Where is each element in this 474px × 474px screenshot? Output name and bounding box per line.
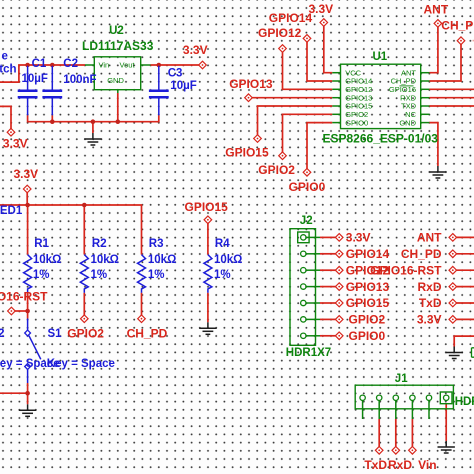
svg-text:Key = Space: Key = Space xyxy=(47,358,115,370)
svg-text:ANT: ANT xyxy=(417,231,442,245)
svg-text:C3: C3 xyxy=(168,68,183,80)
svg-text:C2: C2 xyxy=(63,58,78,70)
svg-text:S2: S2 xyxy=(0,326,5,340)
svg-text:GPIO2: GPIO2 xyxy=(349,313,386,327)
svg-text:Vout: Vout xyxy=(120,61,136,70)
svg-text:1%: 1% xyxy=(91,269,108,281)
svg-text:GPIO0: GPIO0 xyxy=(349,329,386,343)
svg-text:CH_PD: CH_PD xyxy=(441,19,474,33)
svg-text:ANT: ANT xyxy=(424,3,449,17)
svg-text:TxD: TxD xyxy=(419,296,442,310)
svg-text:Vin: Vin xyxy=(418,458,436,472)
svg-text:GPIO2: GPIO2 xyxy=(258,163,295,177)
svg-text:GPIO13: GPIO13 xyxy=(346,280,390,294)
svg-text:GPIO16-RST: GPIO16-RST xyxy=(0,290,48,304)
svg-text:3.3V: 3.3V xyxy=(309,2,334,16)
svg-text:GPIO15: GPIO15 xyxy=(346,296,390,310)
svg-text:LED1: LED1 xyxy=(0,205,23,217)
svg-text:HDR1X6: HDR1X6 xyxy=(455,396,474,408)
svg-text:C1: C1 xyxy=(32,58,47,70)
svg-text:RxD: RxD xyxy=(388,458,412,472)
svg-text:10kΩ: 10kΩ xyxy=(214,254,242,266)
svg-text:R2: R2 xyxy=(92,238,107,250)
svg-text:GPIO0: GPIO0 xyxy=(289,180,326,194)
svg-text:CH_PD: CH_PD xyxy=(127,326,168,340)
svg-text:1%: 1% xyxy=(214,269,231,281)
svg-text:GND: GND xyxy=(399,118,416,127)
svg-text:GPIO15: GPIO15 xyxy=(225,146,269,160)
svg-text:RxD: RxD xyxy=(417,280,441,294)
svg-text:R3: R3 xyxy=(149,238,164,250)
svg-text:U1: U1 xyxy=(373,51,388,63)
svg-text:HDR1X7: HDR1X7 xyxy=(286,347,331,359)
svg-text:switch: switch xyxy=(0,64,17,76)
svg-text:Vin: Vin xyxy=(99,61,110,70)
svg-text:S1: S1 xyxy=(48,328,63,340)
svg-text:10kΩ: 10kΩ xyxy=(148,254,176,266)
svg-text:GPIO16-RST: GPIO16-RST xyxy=(370,263,442,277)
svg-text:10kΩ: 10kΩ xyxy=(33,254,61,266)
svg-text:3.3V: 3.3V xyxy=(3,136,28,150)
svg-text:R1: R1 xyxy=(34,238,49,250)
svg-text:LD1117AS33: LD1117AS33 xyxy=(82,39,154,53)
svg-text:ESP8266_ESP-01/03: ESP8266_ESP-01/03 xyxy=(323,132,439,146)
svg-text:R4: R4 xyxy=(215,238,230,250)
svg-text:e: e xyxy=(2,50,8,62)
svg-text:GPIO12: GPIO12 xyxy=(258,26,302,40)
svg-text:GPIO0: GPIO0 xyxy=(345,118,368,127)
svg-text:J1: J1 xyxy=(395,373,408,385)
svg-text:1%: 1% xyxy=(148,269,165,281)
svg-text:CH_PD: CH_PD xyxy=(401,247,442,261)
svg-text:10µF: 10µF xyxy=(22,73,48,85)
svg-text:TxD: TxD xyxy=(364,458,387,472)
svg-text:GPIO14: GPIO14 xyxy=(346,247,390,261)
svg-text:10kΩ: 10kΩ xyxy=(91,254,119,266)
svg-text:3.3V: 3.3V xyxy=(346,231,371,245)
svg-text:GPIO14: GPIO14 xyxy=(269,11,313,25)
svg-text:3.3V: 3.3V xyxy=(417,313,442,327)
svg-text:GPIO15: GPIO15 xyxy=(185,200,229,214)
svg-text:GND: GND xyxy=(107,76,124,85)
svg-text:3.3V: 3.3V xyxy=(14,167,39,181)
svg-text:GPIO13: GPIO13 xyxy=(229,77,273,91)
svg-text:1%: 1% xyxy=(33,269,50,281)
svg-text:3.3V: 3.3V xyxy=(183,43,208,57)
svg-text:U2: U2 xyxy=(109,25,124,37)
svg-text:GPIO2: GPIO2 xyxy=(67,326,104,340)
svg-text:10µF: 10µF xyxy=(170,80,196,92)
svg-text:J2: J2 xyxy=(300,215,313,227)
svg-text:100nF: 100nF xyxy=(63,74,96,86)
